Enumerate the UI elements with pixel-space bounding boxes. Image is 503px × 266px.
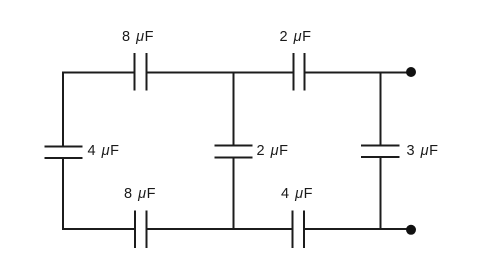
svg-text:8 μF: 8 μF — [124, 186, 156, 202]
svg-text:4 μF: 4 μF — [281, 186, 313, 202]
svg-text:4 μF: 4 μF — [88, 143, 120, 159]
svg-text:3 μF: 3 μF — [407, 143, 439, 159]
svg-text:2 μF: 2 μF — [280, 29, 312, 45]
svg-text:2 μF: 2 μF — [257, 143, 289, 159]
svg-text:8 μF: 8 μF — [122, 29, 154, 45]
